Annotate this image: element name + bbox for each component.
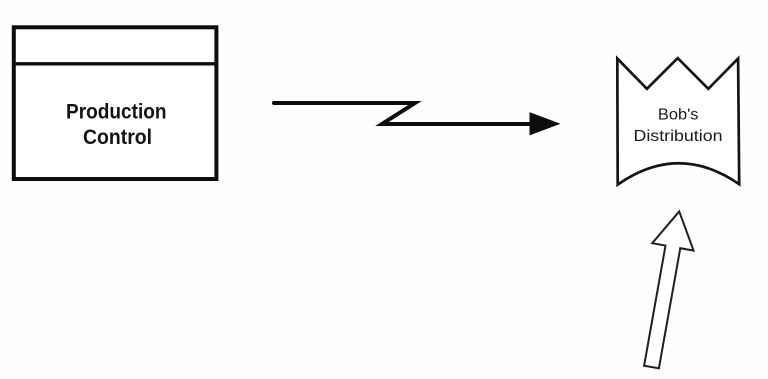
svg-text:Production: Production — [66, 99, 167, 123]
svg-text:Bob's: Bob's — [658, 106, 699, 123]
wire zigzag electronic information arrow — [274, 103, 531, 124]
hollow push arrow — [631, 208, 700, 371]
divider line of process box — [12, 62, 218, 65]
process box Production Control — [14, 27, 217, 179]
arrowhead of zigzag arrow — [530, 112, 561, 135]
factory icon Bob's Distribution — [617, 58, 739, 185]
svg-text:Control: Control — [83, 125, 152, 149]
svg-text:Distribution: Distribution — [634, 128, 723, 145]
